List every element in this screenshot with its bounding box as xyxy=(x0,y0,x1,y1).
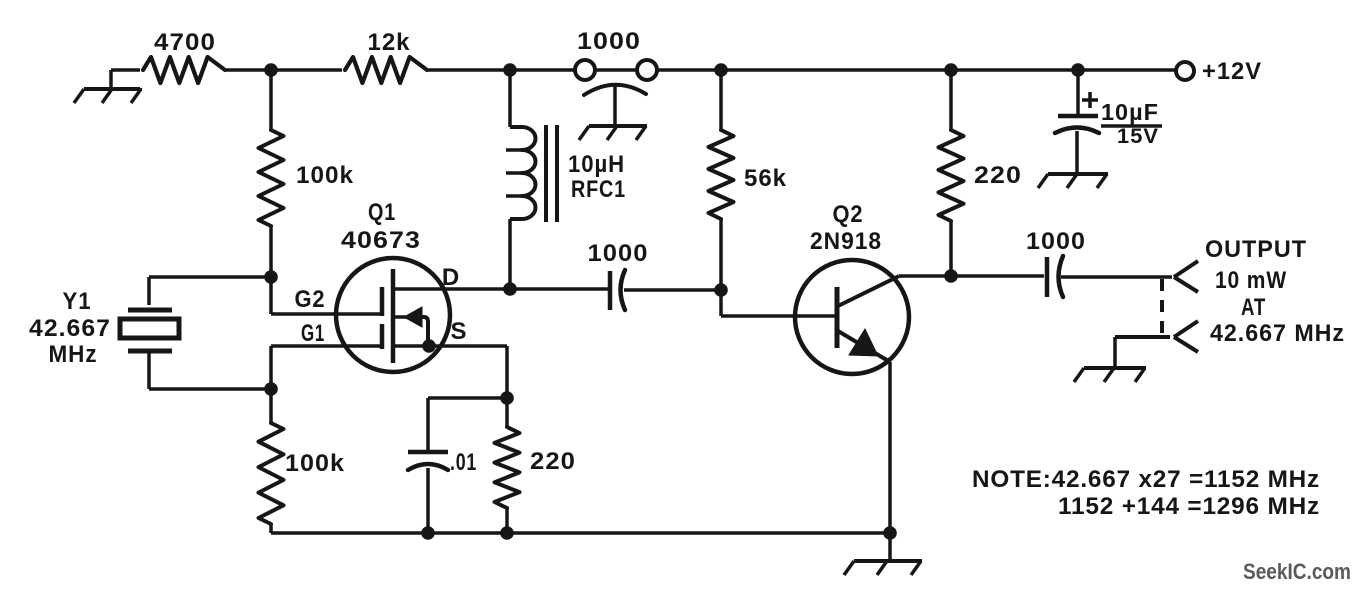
svg-text:42.667 MHz: 42.667 MHz xyxy=(1210,320,1345,347)
svg-text:S: S xyxy=(450,318,467,345)
svg-text:10µF: 10µF xyxy=(1101,99,1159,125)
svg-text:4700: 4700 xyxy=(154,29,216,56)
svg-text:1152 +144 =1296 MHz: 1152 +144 =1296 MHz xyxy=(1058,493,1320,520)
svg-text:OUTPUT: OUTPUT xyxy=(1205,236,1307,263)
svg-text:220: 220 xyxy=(974,162,1022,189)
svg-text:40673: 40673 xyxy=(341,227,421,254)
svg-text:100k: 100k xyxy=(296,162,354,189)
svg-text:100k: 100k xyxy=(285,450,345,477)
svg-text:SeekIC.com: SeekIC.com xyxy=(1243,559,1351,584)
svg-text:1000: 1000 xyxy=(577,28,641,55)
svg-text:10 mW: 10 mW xyxy=(1215,267,1287,294)
svg-text:10µH: 10µH xyxy=(568,151,625,178)
svg-text:AT: AT xyxy=(1241,294,1266,321)
svg-text:RFC1: RFC1 xyxy=(571,176,626,203)
svg-text:1000: 1000 xyxy=(588,240,649,267)
svg-text:12k: 12k xyxy=(368,29,411,56)
svg-text:42.667: 42.667 xyxy=(29,315,111,342)
svg-text:NOTE:42.667 x27 =1152 MHz: NOTE:42.667 x27 =1152 MHz xyxy=(972,466,1320,493)
svg-text:1000: 1000 xyxy=(1026,228,1086,255)
svg-text:MHz: MHz xyxy=(49,341,98,368)
svg-text:D: D xyxy=(442,264,460,291)
svg-text:G2: G2 xyxy=(295,286,326,313)
svg-text:.01: .01 xyxy=(450,449,477,476)
svg-text:56k: 56k xyxy=(744,165,787,192)
svg-text:Q2: Q2 xyxy=(833,201,864,228)
svg-text:15V: 15V xyxy=(1117,125,1159,148)
svg-text:Y1: Y1 xyxy=(63,288,92,315)
svg-text:+12V: +12V xyxy=(1202,58,1262,85)
svg-text:Q1: Q1 xyxy=(368,199,396,226)
svg-text:G1: G1 xyxy=(301,320,325,347)
svg-text:220: 220 xyxy=(530,448,576,475)
svg-text:2N918: 2N918 xyxy=(810,228,882,255)
